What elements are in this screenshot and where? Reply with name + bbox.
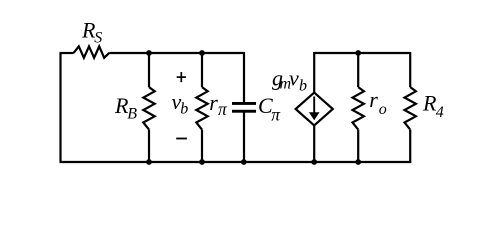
resistor R_B [143,87,154,130]
wire: r_pi bottom lead [201,130,203,162]
node: bottom of r_o [355,159,361,165]
plus sign of v_b [177,72,186,82]
svg-text:4: 4 [436,104,444,121]
arrow inside dependent source [309,97,320,121]
label gm vb [272,65,307,94]
label R_S [81,18,102,47]
wire: C_pi bottom lead [243,113,245,163]
svg-text:π: π [271,105,281,125]
svg-text:v: v [289,65,299,90]
capacitor C_pi [232,102,256,113]
wire: r_o bottom lead [357,130,359,162]
svg-text:π: π [218,99,228,119]
wire: R_B bottom lead [148,130,150,162]
svg-text:S: S [94,30,102,47]
wire: top-left horizontal (left rail to R_S) [60,52,74,54]
svg-text:b: b [299,78,307,95]
wire: C_pi top lead [243,52,245,102]
node: bottom of r_pi [199,159,205,165]
svg-text:b: b [180,100,188,117]
svg-text:R: R [422,91,437,116]
label R_4 [422,91,444,122]
wire: bottom rail [60,161,412,163]
node: top of r_o [355,50,361,56]
label R_B [114,93,137,122]
wire: dependent source bottom lead [313,125,315,162]
dependent current source G1 (gm*vb) diamond [296,93,333,126]
label r_o [369,87,387,118]
svg-text:o: o [379,101,387,118]
wire: R_B top lead [148,53,150,87]
svg-text:B: B [127,105,137,122]
resistor R_4 [405,87,416,130]
label v_b [172,89,189,118]
svg-text:r: r [209,90,218,115]
label C_pi [258,93,281,125]
svg-text:r: r [369,87,378,112]
node: bottom of C_pi [241,159,247,165]
resistor r_pi [196,87,207,130]
label r_pi [209,90,228,119]
resistor r_o [353,87,364,130]
wire: r_o top lead [357,53,359,87]
wire: R_4 bottom lead [409,130,411,163]
wire: top horizontal R_S to C_pi column [109,52,244,54]
minus sign of v_b [176,138,187,140]
wire: left rail vertical [59,53,61,162]
wire: r_pi top lead [201,53,203,87]
node: bottom of R_B [146,159,152,165]
wire: R_4 right rail [409,52,411,87]
node: bottom of dependent source [311,159,317,165]
wire: right top horizontal [314,52,410,54]
node: top of r_pi [199,50,205,56]
wire: dependent source top lead [313,52,315,93]
resistor R_S [74,46,110,57]
node: top of R_B [146,50,152,56]
